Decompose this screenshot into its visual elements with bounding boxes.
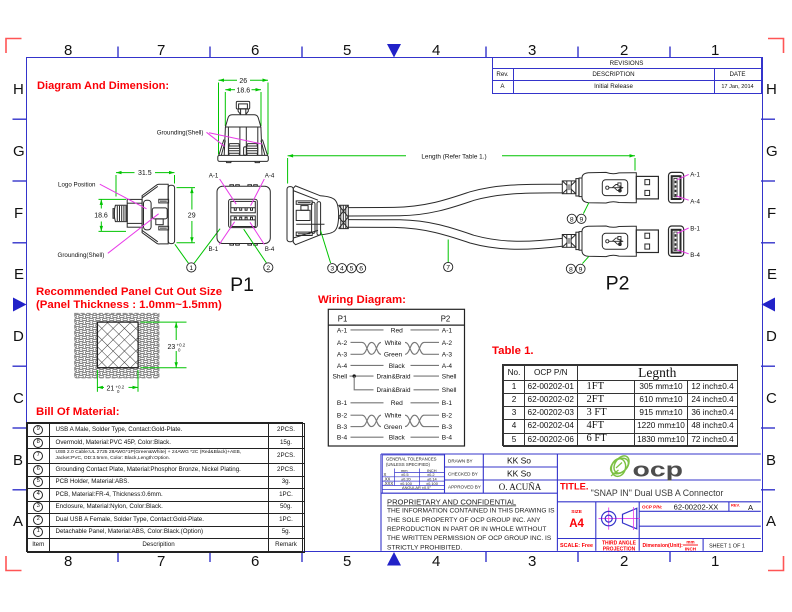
twisted pair A-2/A-3 White/Green (337, 340, 452, 359)
svg-text:B-1: B-1 (690, 225, 700, 232)
metal shell (636, 230, 658, 253)
svg-text:A-4: A-4 (690, 198, 700, 205)
receptacle housing (229, 199, 258, 227)
leader to balloon 2 (244, 229, 267, 263)
USB logo plate (602, 233, 627, 249)
table 1 (502, 364, 738, 446)
svg-text:(UNLESS SPECIFIED): (UNLESS SPECIFIED) (386, 462, 431, 467)
svg-text:SIZE: SIZE (571, 509, 582, 515)
red corner mark top-left (6, 39, 22, 54)
svg-text:0: 0 (178, 347, 181, 352)
svg-text:A: A (748, 503, 754, 512)
svg-text:.XXX: .XXX (384, 481, 394, 486)
svg-text:31.5: 31.5 (138, 170, 152, 177)
dimension 26 (219, 79, 269, 155)
svg-text:P2: P2 (606, 273, 630, 295)
cut out opening with lattice (97, 322, 138, 368)
svg-text:29: 29 (188, 212, 196, 219)
svg-text:Black: Black (389, 435, 406, 442)
svg-text:A-3: A-3 (337, 352, 348, 359)
receptacle shell protruding left (127, 199, 142, 227)
red corner mark bottom-left (6, 556, 22, 571)
svg-text:KK So: KK So (507, 456, 531, 466)
svg-text:White: White (385, 340, 402, 347)
centering arrow left (13, 298, 27, 312)
bill of material table (26, 422, 303, 552)
proprietary and confidential (387, 498, 555, 552)
B-1 / B-4 labels (690, 225, 700, 259)
heading: Diagram And Dimension (37, 80, 169, 92)
bottom ruler ticks (118, 552, 670, 563)
svg-text:9: 9 (580, 216, 584, 223)
svg-text:CHECKED BY: CHECKED BY (448, 472, 478, 477)
leader to balloon 7 (447, 240, 449, 263)
dimension 29 (177, 188, 196, 243)
twisted pair B-2/B-3 White/Green (337, 413, 452, 431)
dimension 23 (141, 322, 187, 368)
strain relief ribs (339, 205, 349, 228)
svg-text:APPROVED BY: APPROVED BY (448, 485, 481, 490)
inner chamfer lines (142, 186, 158, 241)
red corner mark top-right (768, 39, 784, 54)
front cap with grip ridges (114, 205, 127, 221)
ocp logo swirl (608, 453, 632, 478)
svg-text:THE INFORMATION CONTAINED IN T: THE INFORMATION CONTAINED IN THIS DRAWIN… (387, 508, 555, 515)
signatures (499, 456, 542, 492)
svg-text:P1: P1 (338, 314, 348, 323)
overmold body (582, 226, 636, 257)
svg-text:TITLE.: TITLE. (560, 482, 588, 492)
balloons 8 9 (upper) (567, 214, 586, 223)
svg-text:62-00202-XX: 62-00202-XX (674, 503, 719, 512)
svg-text:THE SOLE PROPERTY OF OCP GROUP: THE SOLE PROPERTY OF OCP GROUP INC. ANY (387, 517, 541, 524)
svg-text:Dimension(Unit):: Dimension(Unit): (643, 543, 684, 549)
svg-text:Red: Red (391, 327, 403, 334)
dimension 18.6 (top view) (225, 88, 261, 126)
P1 pin labels (209, 173, 275, 253)
wiring box (328, 309, 464, 446)
svg-text:O. ACUÑA: O. ACUÑA (499, 482, 542, 492)
heading: Table 1 (492, 345, 534, 357)
svg-text:KK So: KK So (507, 469, 531, 479)
ruler numbers top (64, 42, 72, 59)
rear enclosure (287, 186, 348, 245)
svg-text:OCP P/N:: OCP P/N: (642, 505, 663, 510)
svg-text:INCH: INCH (685, 547, 697, 552)
svg-text:Shell: Shell (333, 374, 348, 381)
svg-text:REPRODUCTION IN PART OR IN WHO: REPRODUCTION IN PART OR IN WHOLE WITHOUT (387, 526, 546, 533)
strain relief boot (562, 235, 576, 248)
balloons 3 4 5 6 (328, 264, 366, 273)
strain relief boot (562, 181, 576, 194)
latch slot bottom (159, 226, 169, 230)
svg-text:B-4: B-4 (265, 246, 275, 253)
svg-text:A-4: A-4 (442, 363, 453, 370)
svg-text:SHEET 1 OF 1: SHEET 1 OF 1 (709, 544, 745, 550)
plug B face view (669, 226, 684, 256)
centering arrow bottom (387, 552, 401, 566)
grounding(shell) label (top view) (157, 130, 262, 147)
heading: Bill Of Material (36, 406, 120, 418)
svg-text:SCALE: Free: SCALE: Free (560, 543, 593, 549)
grounding(shell) label (side view) (58, 214, 159, 259)
wire B-1 Red (337, 400, 452, 407)
plug A face view (669, 172, 684, 202)
wire A-4 Black (337, 363, 452, 370)
dimension 31.5 (116, 171, 175, 197)
svg-text:GENERAL TOLERANCES: GENERAL TOLERANCES (386, 457, 437, 462)
leader to balloons 8 9 (lower) (582, 256, 588, 263)
shell drain&braid wires (333, 374, 457, 395)
grounding clip right (laminated) (247, 144, 257, 154)
svg-text:PROJECTION: PROJECTION (603, 547, 636, 553)
heading: Wiring Diagram (318, 294, 406, 306)
base plate (218, 155, 268, 161)
svg-text:B-1: B-1 (442, 400, 453, 407)
leader to balloons 8 9 (upper) (583, 203, 588, 214)
svg-text:Black: Black (389, 363, 406, 370)
svg-text:A-3: A-3 (442, 352, 453, 359)
main body sides (224, 127, 262, 155)
panel with weave hatch (75, 313, 159, 378)
svg-text:A-1: A-1 (442, 327, 453, 334)
heading: Panel Thickness (36, 299, 222, 311)
svg-text:Length (Refer Table 1.): Length (Refer Table 1.) (421, 153, 486, 160)
svg-text:A-2: A-2 (442, 340, 453, 347)
svg-text:26: 26 (239, 78, 247, 85)
balloon 2 (264, 263, 273, 272)
svg-text:ocp: ocp (633, 459, 684, 482)
grounding clip left (laminated) (229, 144, 239, 154)
svg-text:Drain&Braid: Drain&Braid (377, 374, 411, 381)
inner slots (312, 202, 315, 233)
svg-text:4: 4 (340, 266, 344, 273)
USB logo plate (602, 180, 627, 196)
USB trident (606, 183, 623, 192)
svg-text:A-1: A-1 (690, 172, 700, 179)
collar rings (576, 179, 579, 196)
USB-A port A (top) (231, 201, 256, 212)
latch slot top (159, 199, 169, 203)
tolerance sub-table (382, 455, 444, 493)
top ruler ticks (118, 47, 670, 58)
left ruler ticks (13, 119, 27, 490)
svg-text:A-4: A-4 (265, 173, 275, 180)
svg-text:P1: P1 (230, 274, 254, 296)
svg-text:"SNAP IN" Dual USB A Connector: "SNAP IN" Dual USB A Connector (591, 488, 724, 498)
top latch knob (236, 101, 249, 109)
svg-text:21: 21 (107, 386, 115, 393)
svg-text:Green: Green (384, 424, 403, 431)
svg-text:8: 8 (569, 266, 573, 273)
svg-text:THE WRITTEN PERMISSION OF OCP: THE WRITTEN PERMISSION OF OCP GROUP INC.… (387, 535, 552, 542)
A-1 / A-4 labels (690, 172, 700, 206)
metal shell (636, 176, 658, 199)
dimension 18.6 (side view) (99, 199, 127, 231)
collar rings (576, 232, 579, 249)
svg-text:ANGULAR ±0.5°: ANGULAR ±0.5° (402, 485, 431, 490)
svg-text:REV.: REV. (731, 503, 740, 508)
wire A-1 Red (337, 327, 452, 334)
svg-text:5: 5 (350, 266, 354, 273)
panel flange bar (168, 185, 174, 243)
logo position label (58, 181, 147, 209)
svg-text:White: White (385, 413, 402, 420)
ruler letters right (766, 81, 777, 98)
heading: Recommended Panel Cut Out Size (36, 286, 222, 298)
bottom tabs (230, 244, 239, 246)
title block outer lines (381, 454, 761, 551)
svg-text:B-1: B-1 (209, 246, 219, 253)
USB trident (606, 237, 623, 246)
svg-text:Shell: Shell (442, 374, 457, 381)
svg-text:B-4: B-4 (690, 252, 700, 259)
centering arrow top (387, 44, 401, 58)
dome shoulder (225, 115, 261, 127)
overmold body (582, 172, 636, 203)
svg-text:B-1: B-1 (337, 400, 348, 407)
svg-text:1: 1 (189, 265, 193, 272)
leader to balloons 3-6 (321, 231, 331, 263)
revisions table (492, 57, 762, 94)
svg-text:6: 6 (359, 266, 363, 273)
svg-text:Shell: Shell (442, 387, 457, 394)
svg-text:A-1: A-1 (209, 173, 219, 180)
size A4 (569, 509, 584, 530)
ruler letters left (13, 81, 24, 98)
svg-text:B-4: B-4 (337, 435, 348, 442)
svg-text:18.6: 18.6 (94, 212, 108, 219)
connector top view body (218, 101, 268, 162)
enclosure shell (293, 186, 338, 245)
panel face plate (217, 186, 270, 243)
svg-text:DRAWN BY: DRAWN BY (448, 459, 473, 464)
svg-text:mm: mm (686, 540, 694, 545)
svg-text:Drain&Braid: Drain&Braid (377, 387, 411, 394)
svg-text:B-3: B-3 (337, 424, 348, 431)
svg-text:7: 7 (446, 265, 450, 272)
svg-text:B-4: B-4 (442, 435, 453, 442)
third angle projection symbol (599, 507, 641, 530)
top tabs (230, 185, 239, 187)
centering arrow right (762, 298, 776, 312)
red corner mark bottom-right (768, 556, 784, 571)
svg-text:Green: Green (384, 352, 403, 359)
third angle projection label (602, 541, 637, 553)
svg-text:9: 9 (579, 266, 583, 273)
right ruler ticks (761, 119, 775, 490)
svg-text:B-2: B-2 (442, 413, 453, 420)
svg-text:STRICTLY PROHIBITED.: STRICTLY PROHIBITED. (387, 544, 462, 551)
svg-text:Grounding(Shell): Grounding(Shell) (157, 130, 204, 137)
svg-text:A-2: A-2 (337, 340, 348, 347)
tongue block (152, 208, 167, 219)
signing labels (448, 459, 481, 490)
inner vertical panels (228, 128, 257, 156)
connector side view body (113, 184, 175, 244)
snap wings (219, 140, 268, 156)
svg-text:18.6: 18.6 (236, 87, 250, 94)
svg-text:Grounding(Shell): Grounding(Shell) (58, 252, 105, 259)
balloons 8 9 (lower) (566, 264, 585, 273)
length dimension (288, 154, 635, 183)
center slot (244, 147, 247, 156)
panel flange (287, 187, 293, 242)
svg-text:2: 2 (266, 265, 270, 272)
svg-text:8: 8 (570, 216, 574, 223)
svg-text:PROPRIETARY AND CONFIDENTIAL: PROPRIETARY AND CONFIDENTIAL (387, 498, 516, 507)
svg-text:Red: Red (391, 400, 403, 407)
svg-text:A-1: A-1 (337, 327, 348, 334)
svg-text:0: 0 (117, 389, 120, 394)
USB-A port B (bottom) (231, 216, 256, 227)
leader to balloon 1 (175, 229, 220, 264)
svg-text:B-2: B-2 (337, 413, 348, 420)
dimension 21 (97, 370, 138, 392)
cable Y-split (348, 184, 562, 249)
svg-text:P2: P2 (441, 314, 451, 323)
svg-text:A4: A4 (569, 518, 584, 530)
pcb parts (296, 201, 312, 204)
logo plate (144, 200, 152, 230)
wire B-4 Black (337, 435, 452, 442)
ruler numbers bottom (64, 553, 72, 570)
balloon 7 (444, 262, 453, 271)
svg-text:Logo Position: Logo Position (58, 181, 96, 188)
enclosure outline (142, 184, 168, 244)
svg-text:3: 3 (330, 266, 334, 273)
svg-text:23: 23 (168, 344, 176, 351)
svg-text:A-4: A-4 (337, 363, 348, 370)
balloon 1 (187, 263, 196, 272)
svg-text:B-3: B-3 (442, 424, 453, 431)
drawing frame border (26, 57, 763, 552)
